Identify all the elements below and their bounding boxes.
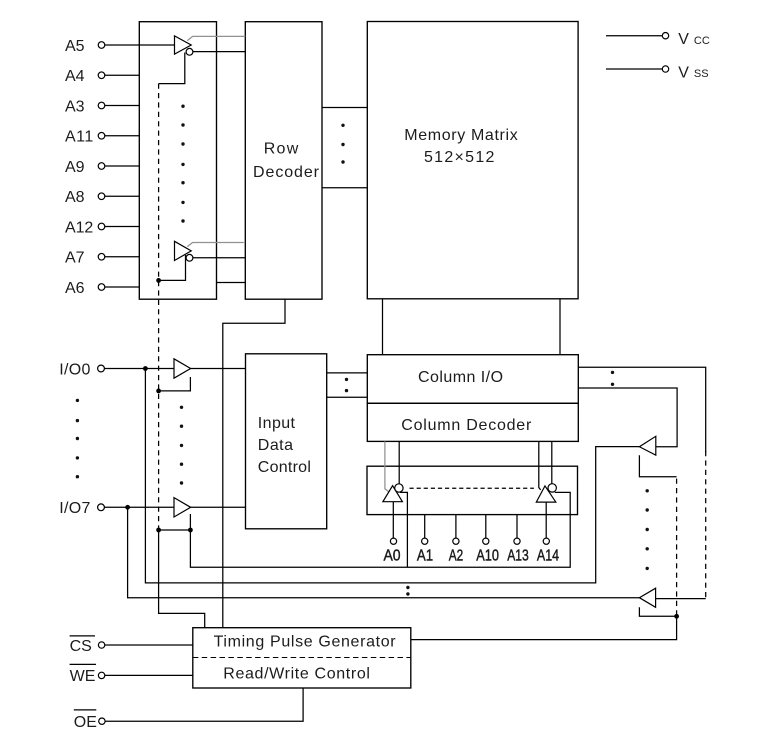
svg-text:A5: A5 (65, 38, 85, 55)
svg-text:Input: Input (258, 415, 296, 432)
svg-text:A9: A9 (65, 159, 85, 176)
svg-text:A6: A6 (65, 280, 85, 297)
svg-text:A8: A8 (65, 189, 85, 206)
svg-text:A3: A3 (65, 98, 85, 115)
svg-text:Decoder: Decoder (253, 164, 320, 181)
svg-text:A11: A11 (65, 129, 93, 146)
svg-text:Row: Row (264, 140, 299, 157)
svg-text:A7: A7 (65, 250, 85, 267)
svg-text:512×512: 512×512 (424, 149, 495, 166)
svg-text:A2: A2 (449, 547, 464, 564)
svg-text:A0: A0 (383, 547, 400, 564)
svg-text:CC: CC (694, 35, 710, 47)
svg-text:A1: A1 (417, 547, 433, 564)
svg-text:OE: OE (74, 714, 97, 731)
svg-text:Timing Pulse Generator: Timing Pulse Generator (214, 633, 397, 650)
svg-text:A14: A14 (537, 547, 559, 564)
svg-text:A13: A13 (507, 547, 529, 564)
svg-text:Column Decoder: Column Decoder (401, 417, 532, 434)
svg-text:V: V (678, 31, 689, 48)
svg-text:Column I/O: Column I/O (418, 369, 503, 386)
svg-text:Read/Write Control: Read/Write Control (223, 666, 370, 683)
svg-text:CS: CS (70, 638, 92, 655)
svg-text:A10: A10 (476, 547, 499, 564)
svg-text:A12: A12 (65, 219, 93, 236)
svg-text:Control: Control (258, 459, 311, 476)
svg-text:WE: WE (70, 668, 96, 685)
svg-text:V: V (678, 65, 689, 82)
svg-text:A4: A4 (65, 68, 85, 85)
svg-text:Data: Data (258, 437, 293, 454)
svg-text:SS: SS (694, 68, 709, 80)
svg-text:Memory Matrix: Memory Matrix (404, 127, 517, 144)
svg-text:I/O0: I/O0 (59, 361, 90, 378)
svg-text:I/O7: I/O7 (59, 500, 90, 517)
